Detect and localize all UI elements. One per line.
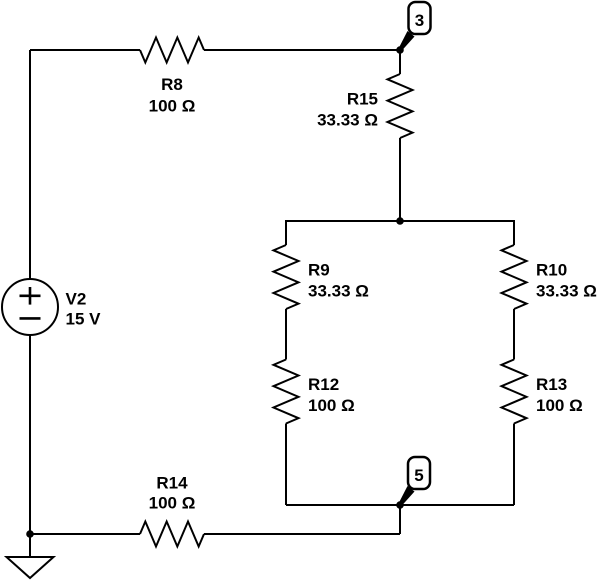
- ground lead: [29, 534, 31, 557]
- wire left vertical upper: [29, 50, 31, 279]
- voltage source V2 circle: [2, 279, 58, 335]
- svg-text:R12: R12: [308, 375, 339, 394]
- svg-text:R13: R13: [536, 375, 567, 394]
- label R8: [149, 75, 196, 116]
- label R12: [308, 375, 355, 415]
- resistor R15: [388, 74, 413, 138]
- resistor R14: [140, 522, 204, 547]
- svg-text:33.33 Ω: 33.33 Ω: [536, 282, 597, 301]
- wire bottom-left segment: [30, 533, 140, 535]
- wire inner bottom: [286, 504, 514, 506]
- label R14: [149, 474, 196, 513]
- svg-text:V2: V2: [66, 290, 87, 309]
- junction dot node 3: [396, 46, 404, 54]
- resistor R12: [274, 360, 299, 424]
- svg-text:R8: R8: [161, 75, 183, 94]
- svg-text:33.33 Ω: 33.33 Ω: [308, 282, 369, 301]
- svg-text:100 Ω: 100 Ω: [149, 494, 196, 513]
- label R10: [536, 261, 597, 301]
- svg-text:33.33 Ω: 33.33 Ω: [317, 111, 378, 130]
- wire right branch bottom: [513, 424, 515, 506]
- svg-text:R14: R14: [156, 474, 188, 493]
- label R9: [308, 261, 369, 301]
- svg-text:15 V: 15 V: [66, 310, 102, 329]
- wire left branch bottom: [285, 424, 287, 506]
- wire node5 stub: [399, 505, 401, 534]
- ground triangle: [7, 557, 54, 578]
- V2 plus sign: [20, 294, 41, 297]
- wire R15 top lead: [399, 50, 401, 74]
- wire R15 bottom lead: [399, 138, 401, 221]
- label R13: [536, 375, 583, 415]
- wire top-left segment: [30, 49, 140, 51]
- node 3 flag: [399, 2, 431, 51]
- V2 minus sign: [20, 317, 41, 320]
- resistor R8: [140, 38, 204, 63]
- junction dot inner top: [396, 217, 404, 225]
- label R15: [317, 90, 378, 130]
- svg-text:5: 5: [414, 466, 423, 485]
- label V2: [66, 290, 102, 329]
- svg-text:R9: R9: [308, 261, 330, 280]
- junction dot node 5: [396, 501, 404, 509]
- svg-text:R10: R10: [536, 261, 567, 280]
- resistor R13: [502, 360, 527, 424]
- junction dot ground: [26, 530, 34, 538]
- wire left vertical lower: [29, 335, 31, 534]
- wire left branch middle: [285, 309, 287, 360]
- svg-text:100 Ω: 100 Ω: [536, 396, 583, 415]
- svg-text:3: 3: [415, 11, 424, 30]
- resistor R10: [502, 245, 527, 309]
- svg-text:100 Ω: 100 Ω: [149, 97, 196, 116]
- resistor R9: [274, 245, 299, 309]
- wire right branch middle: [513, 309, 515, 360]
- svg-text:100 Ω: 100 Ω: [308, 396, 355, 415]
- node 5 flag: [399, 457, 431, 506]
- wire bottom-right segment: [204, 533, 400, 535]
- wire top-right segment: [204, 49, 400, 51]
- svg-text:R15: R15: [347, 90, 378, 109]
- wire inner top: [286, 221, 514, 245]
